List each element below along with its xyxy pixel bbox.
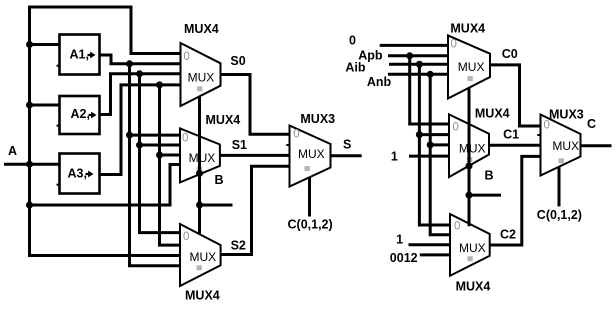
wire junction Apb bus bbox=[406, 52, 413, 59]
node C2 label bbox=[500, 228, 516, 242]
mux MUX4-5 bbox=[449, 114, 489, 177]
svg-text:0012: 0012 bbox=[390, 251, 418, 265]
node 1 label right-middle bbox=[391, 150, 398, 164]
svg-text:0: 0 bbox=[349, 34, 356, 48]
svg-text:0: 0 bbox=[451, 39, 457, 51]
node 0012 label bbox=[390, 251, 418, 265]
svg-text:Anb: Anb bbox=[367, 75, 392, 89]
node C(0,1,2) label left bbox=[288, 218, 333, 232]
svg-text:S2: S2 bbox=[231, 239, 246, 253]
wire S0 to MUX3 input0 bbox=[221, 75, 290, 135]
svg-text:0: 0 bbox=[182, 133, 188, 145]
node A label bbox=[8, 144, 17, 158]
svg-text:MUX4: MUX4 bbox=[475, 107, 510, 121]
mux MUX3-right label bbox=[549, 108, 584, 122]
wire select C right bbox=[558, 167, 561, 207]
svg-text:S1: S1 bbox=[232, 138, 247, 152]
wire 0012 to MUX4-6 input3 bbox=[420, 253, 449, 256]
wire A3 vertical bus to MUX4-3 input1 bbox=[160, 85, 181, 245]
wire junction A3 to MUX4-2 bbox=[156, 152, 163, 159]
svg-text:C(0,1,2): C(0,1,2) bbox=[288, 218, 333, 232]
node Anb label bbox=[367, 75, 392, 89]
svg-text:1: 1 bbox=[396, 233, 403, 247]
wire Aib branch to MUX4-5 input1 bbox=[419, 133, 449, 136]
wire Apb vertical bus to MUX4-5 input0 bbox=[410, 56, 449, 124]
wire A3 branch to MUX4-2 input2 bbox=[160, 154, 181, 157]
wire junction A1 to MUX4-2 bbox=[126, 132, 133, 139]
wire Anb vertical bus to MUX4-6 input1 bbox=[430, 74, 449, 234]
svg-text:Aib: Aib bbox=[345, 61, 366, 75]
block A1 bbox=[57, 35, 100, 75]
svg-text:B: B bbox=[215, 173, 224, 187]
wire junction select on MUX4-5 slope bbox=[466, 163, 473, 170]
node 1 label right-bottom bbox=[396, 233, 403, 247]
wire junction A1 bus bbox=[126, 60, 133, 67]
svg-text:1: 1 bbox=[391, 150, 398, 164]
node C0 label bbox=[502, 47, 518, 61]
wire Apb to MUX4-4 input1 bbox=[388, 54, 448, 57]
wire A to A2 box bbox=[30, 104, 60, 107]
node 0 label right-top bbox=[349, 34, 356, 48]
mux MUX4-2 label bbox=[206, 113, 241, 127]
wire 0 to MUX4-4 input0 bbox=[380, 44, 448, 47]
svg-text:MUX: MUX bbox=[189, 151, 216, 165]
wire A1 vertical bus to MUX4-3 input3 bbox=[130, 64, 181, 266]
wire junction select on MUX4-2 slope bbox=[196, 170, 203, 177]
svg-text:A1,: A1, bbox=[70, 48, 89, 62]
wire C0 to MUX3 input0 bbox=[490, 65, 541, 126]
mux MUX4-2 bbox=[180, 128, 220, 182]
wire select B vertical right bbox=[468, 88, 471, 226]
node Apb label bbox=[358, 49, 383, 63]
node S2 label bbox=[231, 239, 246, 253]
svg-text:C(0,1,2): C(0,1,2) bbox=[537, 208, 582, 222]
svg-text:C0: C0 bbox=[502, 47, 518, 61]
wire junction A to A2 bbox=[26, 102, 33, 109]
wire A2 vertical bus to MUX4-3 input0 bbox=[140, 74, 181, 233]
svg-text:0: 0 bbox=[453, 122, 459, 134]
pin stub unused input MUX3-left bbox=[286, 144, 289, 146]
block A2 bbox=[57, 96, 100, 134]
wire junction Anb to MUX4-5 bbox=[427, 141, 434, 148]
svg-text:MUX: MUX bbox=[458, 60, 485, 74]
svg-text:MUX: MUX bbox=[459, 241, 486, 255]
mux MUX4-3 label bbox=[185, 289, 220, 303]
mux MUX4-4 bbox=[448, 35, 490, 98]
svg-text:0: 0 bbox=[454, 221, 460, 233]
mux MUX4-1 label bbox=[184, 22, 219, 36]
wire A to A1 box bbox=[30, 43, 60, 46]
svg-text:MUX3: MUX3 bbox=[549, 108, 584, 122]
wire junction Aib bus bbox=[416, 61, 423, 68]
wire junction A row4 branch bbox=[26, 202, 33, 209]
svg-text:A: A bbox=[8, 144, 17, 158]
node C label bbox=[587, 117, 596, 131]
wire A1 branch to MUX4-2 input0 bbox=[130, 134, 181, 137]
svg-text:MUX4: MUX4 bbox=[456, 280, 491, 294]
wire junction B node right bbox=[466, 192, 473, 199]
wire Aib vertical bus to MUX4-6 input0 bbox=[419, 64, 449, 225]
wire C1 to MUX3 input1 bbox=[489, 144, 541, 147]
svg-text:0: 0 bbox=[183, 231, 189, 243]
svg-text:A3,: A3, bbox=[68, 167, 87, 181]
wire A1 output to MUX4-1 input1 bbox=[100, 55, 181, 64]
svg-text:C1: C1 bbox=[503, 128, 519, 142]
wire select B vertical left bbox=[198, 96, 201, 234]
wire junction A3 bus bbox=[156, 81, 163, 88]
svg-text:B: B bbox=[485, 169, 494, 183]
svg-text:MUX3: MUX3 bbox=[300, 112, 335, 126]
wire A branch to MUX4-2 input3 bbox=[30, 165, 181, 206]
svg-text:C2: C2 bbox=[500, 228, 516, 242]
node S1 label bbox=[232, 138, 247, 152]
mux MUX4-4 label bbox=[450, 22, 485, 36]
wire Anb branch to MUX4-5 input2 bbox=[430, 143, 449, 146]
node C1 label bbox=[503, 128, 519, 142]
svg-text:MUX: MUX bbox=[552, 139, 579, 153]
wire junction B node left bbox=[196, 202, 203, 209]
wire S output bbox=[331, 154, 362, 157]
mux MUX4-6 bbox=[450, 214, 490, 276]
node C(0,1,2) label right bbox=[537, 208, 582, 222]
wire A2 output to MUX4-1 input2 bbox=[100, 74, 181, 115]
wire B stub left bbox=[200, 204, 233, 207]
node B label right bbox=[485, 169, 494, 183]
wire C output bbox=[581, 144, 612, 147]
wire A input entry bbox=[4, 163, 60, 166]
svg-text:C: C bbox=[587, 117, 596, 131]
wire A vertical bus with top loop to MUX4-1 input0 and bottom branch to MUX4-3 input2 bbox=[30, 7, 181, 256]
mux MUX3-left bbox=[290, 126, 331, 187]
svg-text:0: 0 bbox=[544, 120, 550, 132]
svg-text:S0: S0 bbox=[230, 54, 245, 68]
svg-text:MUX: MUX bbox=[459, 142, 486, 156]
mux MUX4-6 label bbox=[456, 280, 491, 294]
wire junction Anb bus bbox=[427, 71, 434, 78]
wire A2 branch to MUX4-2 input1 bbox=[140, 144, 181, 147]
node B label left bbox=[215, 173, 224, 187]
wire Anb to MUX4-4 input3 bbox=[388, 73, 448, 76]
wire C2 to MUX3 input2 bbox=[490, 156, 541, 245]
node Aib label bbox=[345, 61, 366, 75]
wire select C left bbox=[308, 178, 311, 217]
mux MUX4-1 bbox=[181, 43, 221, 106]
svg-text:MUX4: MUX4 bbox=[184, 22, 219, 36]
mux MUX4-3 bbox=[180, 224, 221, 286]
svg-text:S: S bbox=[343, 138, 351, 152]
svg-text:MUX4: MUX4 bbox=[206, 113, 241, 127]
wire 1 to MUX4-5 input3 bbox=[409, 155, 449, 158]
wire junction Aib to MUX4-5 bbox=[416, 131, 423, 138]
mux MUX3-left label bbox=[300, 112, 335, 126]
svg-text:MUX4: MUX4 bbox=[185, 289, 220, 303]
wire junction A2 to MUX4-2 bbox=[136, 142, 143, 149]
svg-text:A2,: A2, bbox=[71, 107, 90, 121]
svg-text:MUX: MUX bbox=[298, 147, 325, 161]
wire S2 to MUX3 input2 bbox=[221, 166, 290, 254]
mux MUX3-right bbox=[541, 115, 581, 176]
wire B stub right bbox=[469, 194, 501, 197]
mux MUX4-5 label bbox=[475, 107, 510, 121]
svg-text:MUX4: MUX4 bbox=[450, 22, 485, 36]
wire junction A to A1 bbox=[26, 41, 33, 48]
svg-text:MUX: MUX bbox=[188, 71, 215, 85]
wire A3 output to MUX4-1 input3 bbox=[100, 85, 181, 175]
svg-text:MUX: MUX bbox=[190, 250, 217, 264]
node S label bbox=[343, 138, 351, 152]
wire junction A2 bus bbox=[136, 70, 143, 77]
node S0 label bbox=[230, 54, 245, 68]
wire S1 to MUX3 input1 bbox=[220, 154, 290, 157]
svg-text:0: 0 bbox=[293, 129, 299, 141]
block A3 bbox=[57, 154, 100, 194]
wire Aib to MUX4-4 input2 bbox=[389, 63, 448, 66]
pin stub unused input MUX3-right bbox=[537, 134, 540, 136]
svg-text:0: 0 bbox=[184, 51, 190, 63]
wire junction A to A3 bbox=[26, 161, 33, 168]
wire 1 to MUX4-6 input2 bbox=[409, 243, 450, 246]
